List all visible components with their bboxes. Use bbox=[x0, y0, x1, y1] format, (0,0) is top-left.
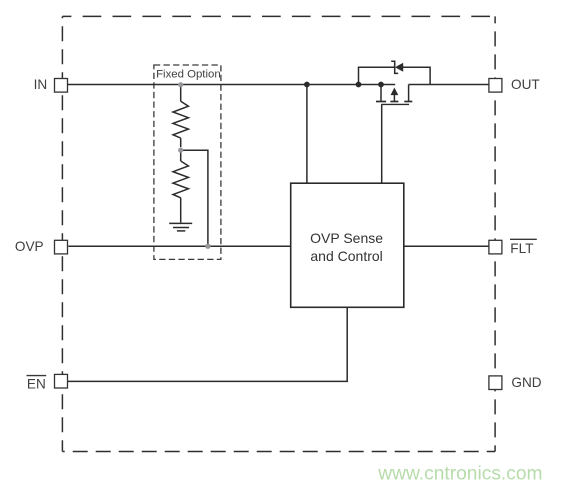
pin FLT (active low) bbox=[489, 240, 502, 254]
ground bbox=[169, 223, 192, 231]
wire OVP sense tap (IN rail to control box top) bbox=[306, 85, 308, 184]
pin OVP bbox=[55, 240, 68, 254]
svg-text:Fixed Option: Fixed Option bbox=[156, 69, 221, 81]
svg-text:EN: EN bbox=[27, 377, 46, 392]
node R divider mid (gray) bbox=[178, 148, 183, 153]
wire R divider mid-tap to OVP rail bbox=[181, 150, 208, 246]
svg-text:and Control: and Control bbox=[310, 248, 382, 264]
gate bar bbox=[381, 103, 409, 105]
svg-text:www.cntronics.com: www.cntronics.com bbox=[377, 464, 542, 485]
svg-text:OVP: OVP bbox=[15, 239, 44, 254]
node IN rail / sense tap bbox=[304, 82, 310, 88]
zener body diode D1 loop wiring bbox=[359, 67, 395, 84]
pin OUT bbox=[489, 79, 502, 93]
op block U1: OVP Sense and Control bbox=[291, 183, 404, 307]
node IN rail / diode loop bbox=[356, 82, 362, 88]
wire OUT rail bbox=[409, 84, 489, 86]
wire IN rail bbox=[68, 84, 395, 86]
wire FLT rail bbox=[404, 245, 489, 247]
IC boundary dashed box bbox=[62, 16, 495, 451]
wire OVP rail bbox=[68, 245, 290, 247]
node OVP tap junction (gray) bbox=[205, 244, 210, 249]
wire gate drive (gate to control box top) bbox=[381, 104, 383, 183]
drain lead bbox=[408, 85, 410, 102]
svg-text:IN: IN bbox=[34, 77, 48, 92]
svg-text:FLT: FLT bbox=[510, 241, 533, 256]
zener body diode D1 bbox=[391, 61, 403, 73]
body arrow bbox=[393, 94, 395, 101]
resistor R2 bbox=[173, 152, 188, 223]
source lead bbox=[380, 85, 382, 102]
svg-text:OUT: OUT bbox=[511, 77, 540, 92]
pin IN bbox=[55, 79, 68, 93]
node IN rail / source bbox=[378, 82, 384, 88]
svg-text:OVP Sense: OVP Sense bbox=[310, 230, 383, 246]
pin GND bbox=[489, 376, 502, 390]
wire EN rail bbox=[68, 307, 347, 381]
transistor Q1 (internal NFET switch) bbox=[376, 85, 412, 105]
pin EN (active low) bbox=[55, 374, 68, 388]
Fixed Option dashed box bbox=[154, 65, 221, 259]
svg-text:GND: GND bbox=[511, 375, 541, 390]
channel bars bbox=[376, 101, 386, 103]
node R1 top (gray) bbox=[178, 82, 183, 87]
resistor R1 bbox=[173, 85, 188, 148]
